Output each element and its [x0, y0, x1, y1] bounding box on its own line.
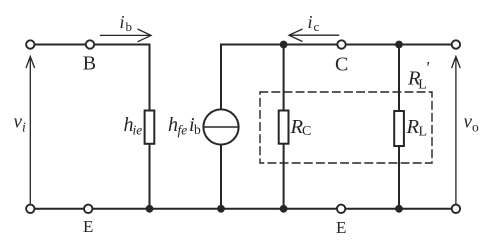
- arrow v_o: [452, 57, 461, 204]
- svg-text:L: L: [419, 125, 428, 140]
- svg-text:i: i: [22, 120, 26, 135]
- label v_o: [464, 112, 480, 135]
- svg-text:L: L: [418, 78, 427, 93]
- junction dot R_L/bottom: [395, 205, 403, 213]
- junction dot R_C/bottom: [280, 205, 288, 213]
- label R_C: [290, 116, 312, 139]
- svg-text:o: o: [472, 120, 479, 135]
- junction dot R_L/top: [395, 41, 403, 49]
- node E left: [84, 205, 92, 213]
- junction dot R_C/top: [280, 41, 288, 49]
- svg-text:c: c: [314, 19, 320, 34]
- terminal bottom-left: [26, 205, 34, 213]
- wire R_L bottom lead: [398, 146, 400, 209]
- svg-text:i: i: [120, 12, 125, 32]
- label v_i: [14, 112, 27, 135]
- arrow v_i: [26, 57, 35, 204]
- wire top-left rail B: [30, 44, 149, 46]
- label i_b: [120, 12, 133, 34]
- wire R_C top lead: [283, 45, 285, 111]
- svg-text:ie: ie: [133, 123, 143, 138]
- resistor R_C: [279, 111, 289, 144]
- svg-text:E: E: [83, 217, 93, 236]
- wire top-right rail C: [221, 44, 456, 46]
- svg-text:C: C: [302, 124, 311, 139]
- resistor h_ie: [145, 111, 155, 144]
- terminal top-left: [26, 40, 34, 48]
- node B: [86, 40, 94, 48]
- junction dot h_ie/bottom: [146, 205, 154, 213]
- wire current-source bottom lead: [220, 145, 222, 209]
- wire R_C bottom lead: [283, 144, 285, 209]
- svg-text:C: C: [335, 54, 348, 76]
- terminal top-right: [452, 40, 460, 48]
- svg-text:b: b: [194, 122, 201, 137]
- svg-text:E: E: [336, 218, 346, 237]
- wire bottom rail E: [30, 208, 456, 210]
- junction dot source/bottom: [217, 205, 225, 213]
- svg-text:R: R: [406, 116, 420, 138]
- wire current-source top lead: [220, 45, 222, 110]
- dashed box R_L': [260, 92, 432, 163]
- wire left drop to h_ie: [149, 45, 151, 111]
- node E right: [337, 205, 345, 213]
- arrow i_b: [101, 29, 152, 42]
- label i_c: [308, 12, 320, 34]
- svg-text:h: h: [168, 114, 178, 136]
- arrow i_c: [289, 29, 339, 42]
- wire R_L top lead: [398, 45, 400, 112]
- label R_L': [407, 58, 430, 93]
- node C: [337, 40, 345, 48]
- svg-text:′: ′: [427, 58, 431, 77]
- label R_L: [406, 116, 428, 140]
- terminal bottom-right: [452, 205, 460, 213]
- svg-text:fe: fe: [178, 123, 188, 138]
- wire h_ie bottom lead: [149, 144, 151, 209]
- svg-text:b: b: [126, 19, 133, 34]
- svg-text:B: B: [83, 53, 96, 75]
- label h_ie: [124, 114, 143, 138]
- svg-text:i: i: [308, 12, 313, 32]
- label h_fe i_b: [168, 114, 201, 138]
- resistor R_L: [394, 111, 404, 146]
- current source h_fe*i_b (circle with bar): [203, 109, 238, 144]
